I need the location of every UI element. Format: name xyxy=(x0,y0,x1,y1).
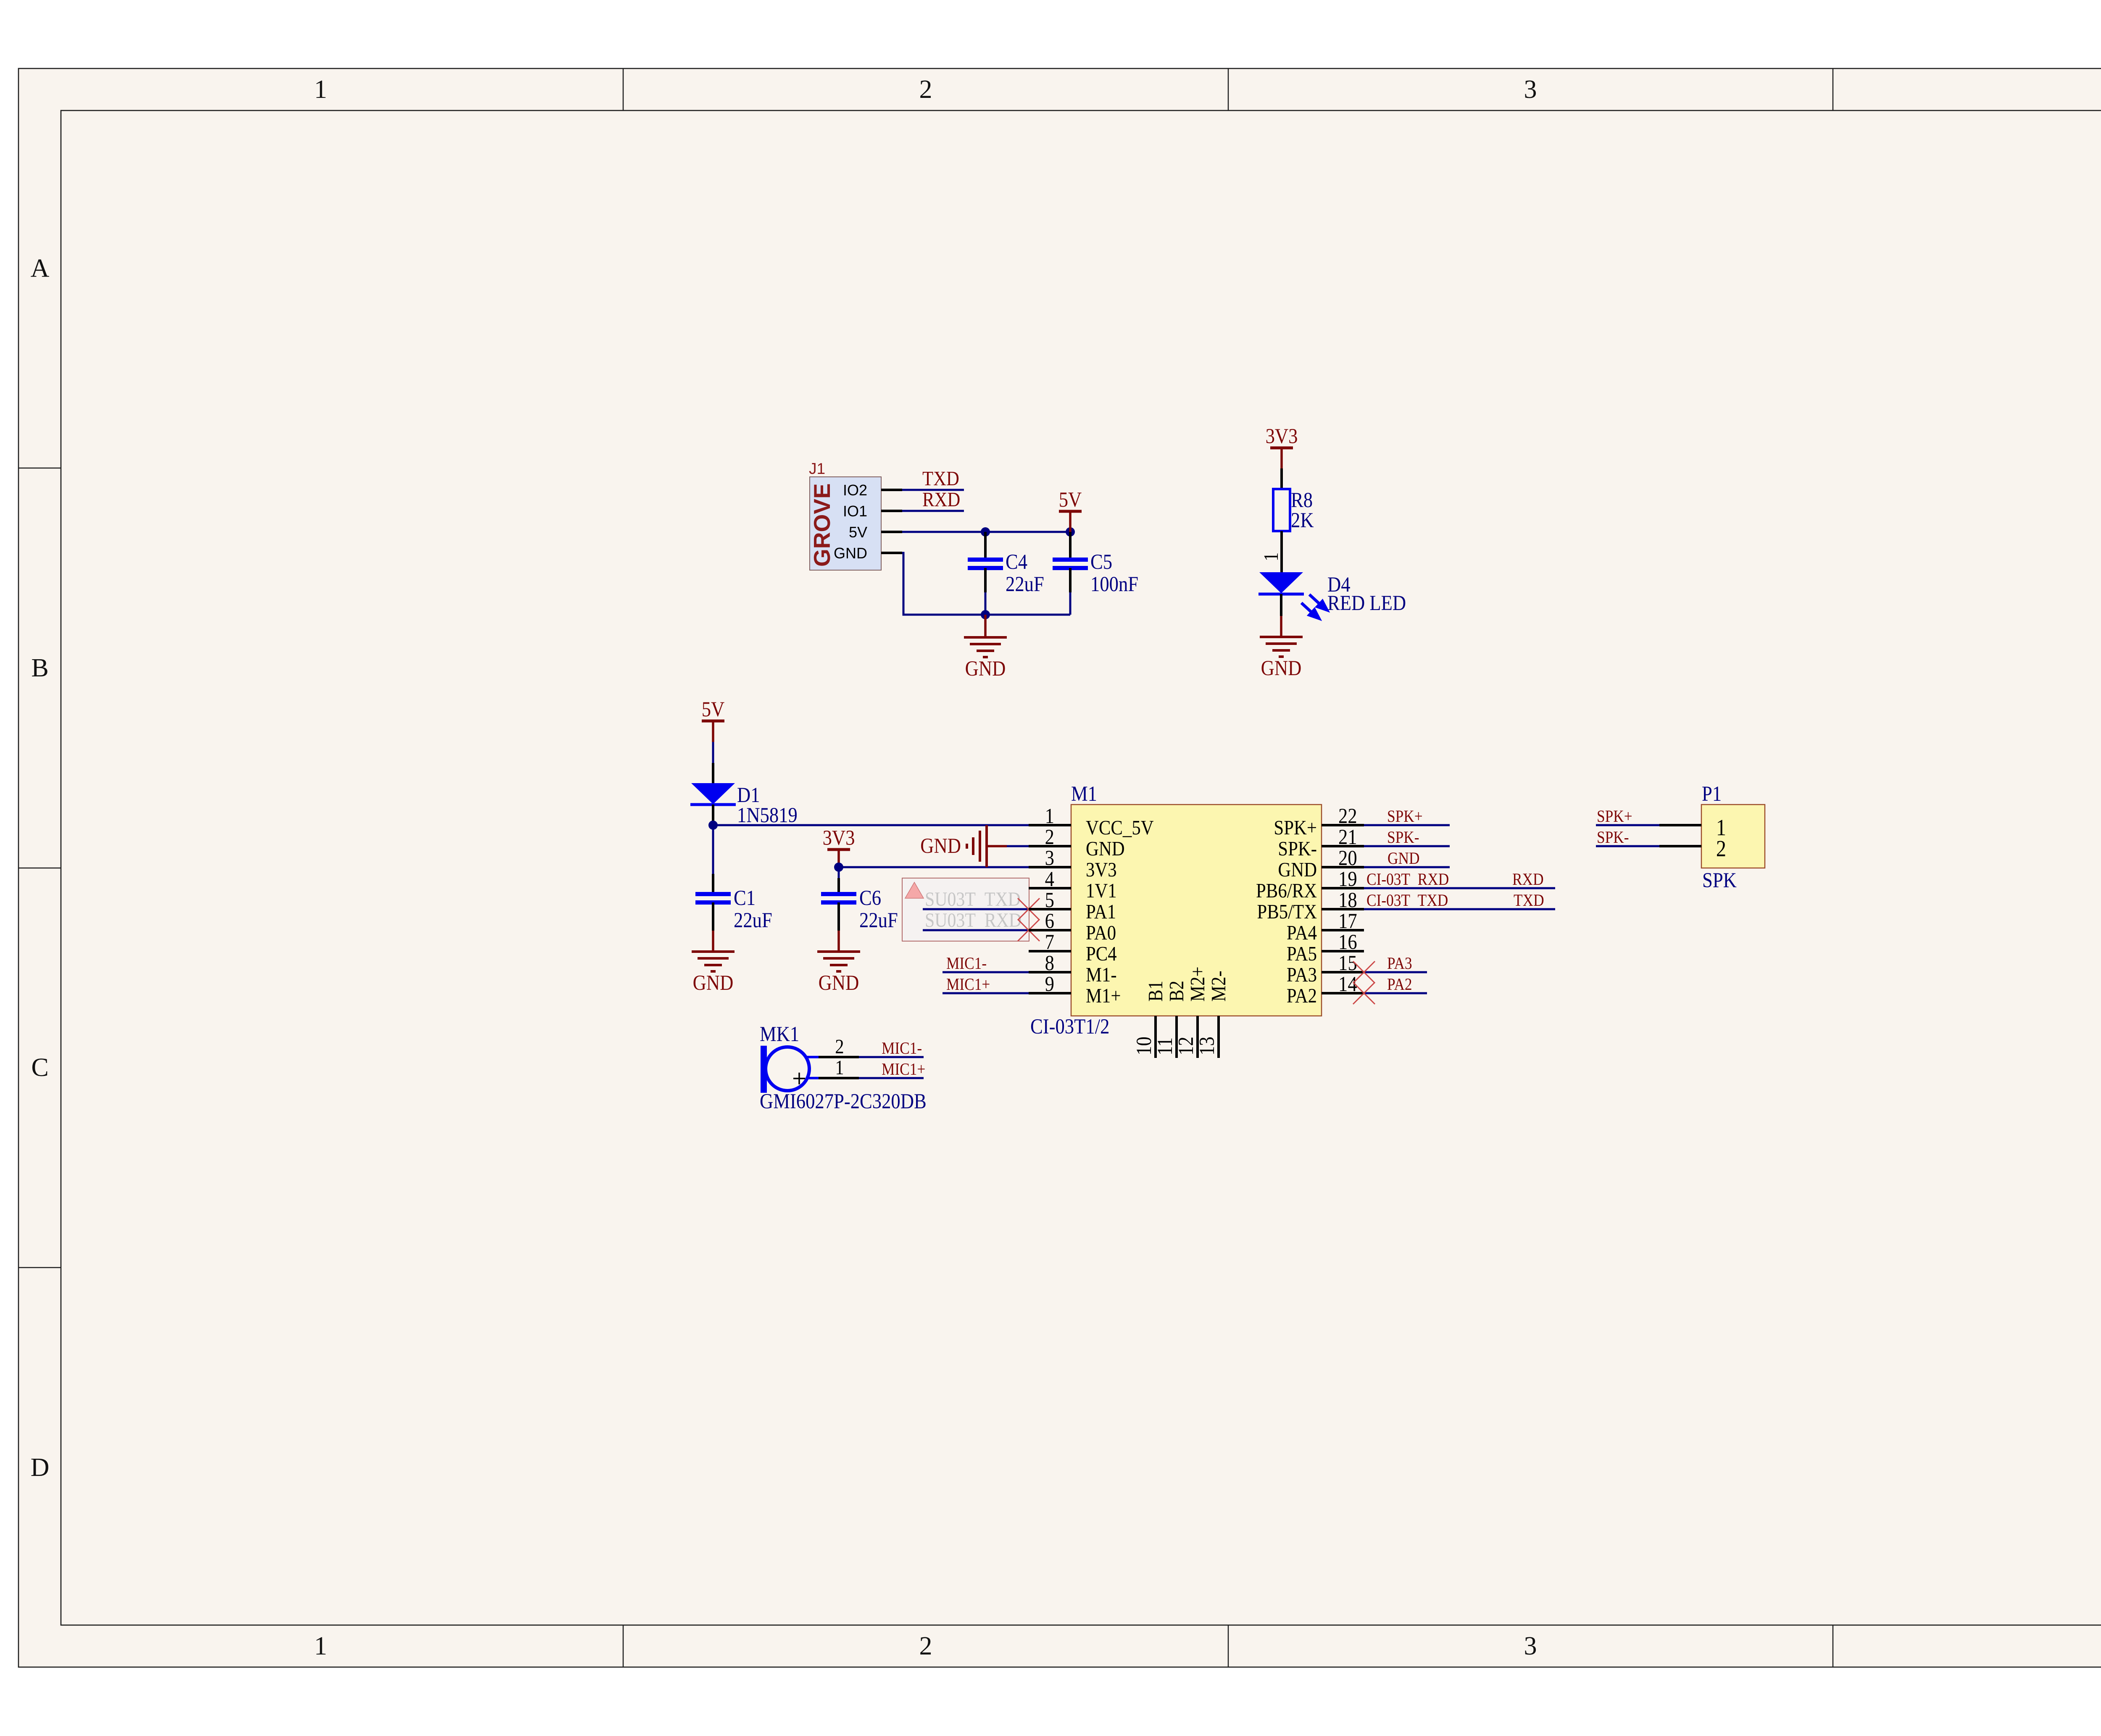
M1 pin 1 VCC_5V xyxy=(1029,805,1154,839)
svg-text:15: 15 xyxy=(1338,952,1357,975)
ground GND (C1) xyxy=(692,931,735,995)
wire SPK- net (M1 pin 21) xyxy=(1364,845,1450,847)
M1 pin 13 M2- xyxy=(1196,971,1230,1058)
svg-text:11: 11 xyxy=(1154,1037,1177,1055)
M1 pin 19 PB6/RX xyxy=(1256,868,1364,902)
capacitor C6 xyxy=(821,894,856,931)
svg-text:20: 20 xyxy=(1338,847,1357,870)
wire R8 to D4 xyxy=(1280,531,1283,572)
svg-text:M1-: M1- xyxy=(1086,963,1117,986)
svg-text:PA0: PA0 xyxy=(1086,921,1116,944)
M1 pin 15 PA3 xyxy=(1287,952,1364,986)
wire SPK- net (P1 pin 2) xyxy=(1596,845,1659,847)
svg-text:CI-03T TXD: CI-03T TXD xyxy=(1366,891,1448,910)
svg-text:J1: J1 xyxy=(809,460,825,477)
svg-text:GND: GND xyxy=(819,972,859,995)
svg-text:2: 2 xyxy=(1716,836,1726,861)
svg-text:16: 16 xyxy=(1338,931,1357,954)
wire MIC1+ net (M1 pin 9) xyxy=(943,992,1029,994)
wire GND net (M1 pin 20) xyxy=(1364,866,1450,868)
P1 pin 2 xyxy=(1659,836,1726,861)
svg-text:12: 12 xyxy=(1175,1036,1198,1055)
M1 pin 5 PA1 xyxy=(1029,889,1116,923)
svg-text:2: 2 xyxy=(919,1632,932,1660)
svg-text:8: 8 xyxy=(1045,952,1054,975)
no-connect X at M1 pin 15 xyxy=(1353,961,1375,983)
svg-text:SPK-: SPK- xyxy=(1278,837,1317,860)
wire SPK+ net (P1 pin 1) xyxy=(1596,824,1659,826)
svg-text:18: 18 xyxy=(1338,889,1357,912)
wire 3V3 net (to M1 pin 3) xyxy=(839,866,1029,868)
svg-text:PB5/TX: PB5/TX xyxy=(1257,900,1317,923)
svg-text:2: 2 xyxy=(919,75,932,104)
svg-text:GND: GND xyxy=(1261,657,1302,680)
svg-text:PA1: PA1 xyxy=(1086,900,1116,923)
svg-text:B2: B2 xyxy=(1165,981,1188,1002)
M1 pin 22 SPK+ xyxy=(1274,805,1364,839)
M1 pin 11 B2 xyxy=(1154,981,1188,1058)
wire MIC1- net (MK1) xyxy=(859,1056,924,1058)
svg-text:GROVE: GROVE xyxy=(809,483,835,567)
resistor R8 xyxy=(1273,489,1290,531)
svg-text:6: 6 xyxy=(1045,910,1054,933)
svg-text:C5: C5 xyxy=(1090,551,1112,574)
M1 pin 9 M1+ xyxy=(1029,973,1121,1007)
svg-text:2K: 2K xyxy=(1291,509,1314,532)
svg-text:SPK+: SPK+ xyxy=(1387,807,1423,826)
ground GND (M1 pin 2) xyxy=(920,825,987,867)
wire GND net (J1 to C4/C5 bottoms) xyxy=(902,553,1070,615)
no-connect X at M1 pin 5 xyxy=(1018,898,1040,920)
wire 5V net (J1 to C4/C5) xyxy=(902,531,1070,533)
svg-text:1V1: 1V1 xyxy=(1086,879,1117,902)
svg-text:PC4: PC4 xyxy=(1086,942,1117,965)
svg-text:P1: P1 xyxy=(1702,783,1722,806)
junction 5V at C4 xyxy=(981,527,990,537)
wire RXD (J1 IO1) xyxy=(902,510,964,512)
svg-text:SPK-: SPK- xyxy=(1387,828,1419,847)
svg-text:MIC1-: MIC1- xyxy=(882,1039,922,1057)
svg-text:VCC_5V: VCC_5V xyxy=(1086,816,1154,839)
M1 pin 14 PA2 xyxy=(1287,973,1364,1007)
svg-text:GND: GND xyxy=(1388,849,1420,868)
svg-text:MIC1-: MIC1- xyxy=(946,954,987,973)
capacitor C5 xyxy=(1053,532,1088,615)
M1 pin 12 M2+ xyxy=(1175,966,1209,1058)
wire GND to M1 pin 2 xyxy=(987,845,1007,847)
svg-text:RXD: RXD xyxy=(1512,870,1544,889)
M1 pin 10 B1 xyxy=(1133,981,1167,1058)
svg-text:RXD: RXD xyxy=(922,488,960,511)
svg-text:M2+: M2+ xyxy=(1186,966,1209,1002)
svg-text:1: 1 xyxy=(835,1056,844,1079)
svg-text:5V: 5V xyxy=(849,523,867,541)
svg-text:MK1: MK1 xyxy=(760,1023,799,1046)
wire CI-03T RXD net (M1 pin 19) xyxy=(1364,887,1555,889)
svg-text:IO2: IO2 xyxy=(843,481,867,499)
svg-text:TXD: TXD xyxy=(1514,891,1544,910)
svg-text:3V3: 3V3 xyxy=(1086,858,1117,881)
capacitor C1 xyxy=(695,894,731,931)
svg-text:PB6/RX: PB6/RX xyxy=(1256,879,1317,902)
svg-text:22uF: 22uF xyxy=(734,909,772,932)
svg-text:100nF: 100nF xyxy=(1090,573,1138,596)
IC M1 body xyxy=(1071,805,1322,1016)
connector J1 (GROVE) xyxy=(809,477,902,570)
svg-text:10: 10 xyxy=(1133,1036,1156,1055)
wire MIC1- net (M1 pin 8) xyxy=(943,971,1029,973)
wire 3V3 to C6 xyxy=(838,867,840,878)
power 3V3 (R8) xyxy=(1266,425,1298,468)
M1 pin 20 GND xyxy=(1278,847,1364,881)
svg-text:C4: C4 xyxy=(1006,551,1027,574)
svg-text:5: 5 xyxy=(1045,889,1054,912)
M1 pin 6 PA0 xyxy=(1029,910,1116,944)
svg-text:5V: 5V xyxy=(702,698,725,721)
wire PA2 net (M1 pin 14) xyxy=(1364,992,1427,994)
svg-text:SU03T RXD: SU03T RXD xyxy=(925,909,1022,931)
no-connect X at M1 pin 14 xyxy=(1353,982,1375,1004)
annotation block SU03T xyxy=(902,878,1029,941)
svg-text:3: 3 xyxy=(1045,847,1054,870)
svg-text:MIC1+: MIC1+ xyxy=(946,975,990,994)
svg-text:SPK+: SPK+ xyxy=(1274,816,1317,839)
svg-text:D: D xyxy=(31,1453,50,1482)
svg-text:C: C xyxy=(31,1053,48,1082)
MK1 pin 1 xyxy=(819,1056,859,1079)
M1 pin 7 PC4 xyxy=(1029,931,1117,965)
svg-text:B1: B1 xyxy=(1144,981,1167,1002)
svg-text:GND: GND xyxy=(1278,858,1317,881)
M1 pin 2 GND xyxy=(1029,826,1125,860)
svg-text:2: 2 xyxy=(1045,826,1054,849)
svg-text:2: 2 xyxy=(835,1035,844,1058)
svg-text:PA4: PA4 xyxy=(1287,921,1317,944)
svg-text:5V: 5V xyxy=(1059,489,1082,512)
svg-text:9: 9 xyxy=(1045,973,1054,996)
svg-text:13: 13 xyxy=(1196,1036,1219,1055)
svg-text:PA5: PA5 xyxy=(1287,942,1317,965)
svg-text:SU03T TXD: SU03T TXD xyxy=(925,888,1021,910)
wire MIC1+ net (MK1) xyxy=(859,1077,924,1079)
svg-text:TXD: TXD xyxy=(922,467,959,490)
svg-text:PA3: PA3 xyxy=(1387,954,1412,973)
junction 3V3 xyxy=(834,863,843,872)
junction 5V at C5 xyxy=(1066,527,1075,537)
svg-text:3V3: 3V3 xyxy=(823,827,855,850)
wire SU03T RXD net (M1 pin 6) xyxy=(923,929,1029,931)
svg-text:GND: GND xyxy=(920,835,961,858)
svg-text:22: 22 xyxy=(1338,805,1357,828)
svg-text:M2-: M2- xyxy=(1207,971,1230,1002)
diode D1 xyxy=(690,783,736,825)
svg-text:1: 1 xyxy=(1045,805,1054,828)
svg-text:C1: C1 xyxy=(734,887,756,910)
svg-text:B: B xyxy=(31,654,48,682)
junction GND at C4 bottom xyxy=(981,610,990,619)
svg-text:19: 19 xyxy=(1338,868,1357,891)
svg-text:1: 1 xyxy=(1260,552,1282,561)
svg-text:21: 21 xyxy=(1338,826,1357,849)
ground GND (C6) xyxy=(817,931,860,995)
P1 pin 1 xyxy=(1659,815,1726,840)
no-connect X at M1 pin 6 xyxy=(1018,919,1040,941)
wire TXD (J1 IO2) xyxy=(902,489,964,491)
svg-text:22uF: 22uF xyxy=(1006,573,1044,596)
M1 pin 3 3V3 xyxy=(1029,847,1117,881)
wire VCC_5V net (D1 to M1 pin 1) xyxy=(713,824,1029,826)
microphone MK1 xyxy=(761,1046,819,1093)
junction D1 output xyxy=(708,821,718,830)
svg-text:MIC1+: MIC1+ xyxy=(882,1060,925,1078)
power 5V (D1) xyxy=(702,698,725,742)
svg-text:A: A xyxy=(31,254,50,283)
M1 pin 21 SPK- xyxy=(1278,826,1364,860)
svg-text:17: 17 xyxy=(1338,910,1357,933)
svg-text:1: 1 xyxy=(314,75,327,104)
M1 pin 16 PA5 xyxy=(1287,931,1364,965)
wire 5V to D1 xyxy=(712,742,714,763)
wire CI-03T TXD net (M1 pin 18) xyxy=(1364,908,1555,910)
MK1 pin 2 xyxy=(819,1035,859,1058)
svg-text:1N5819: 1N5819 xyxy=(737,804,798,827)
svg-text:R8: R8 xyxy=(1291,489,1313,512)
ground GND (C4/C5) xyxy=(964,615,1007,681)
svg-text:3: 3 xyxy=(1524,1632,1537,1660)
svg-text:SPK+: SPK+ xyxy=(1597,807,1632,826)
svg-text:M1+: M1+ xyxy=(1086,984,1121,1007)
svg-text:22uF: 22uF xyxy=(859,909,898,932)
svg-text:3: 3 xyxy=(1524,75,1537,104)
M1 pin 4 1V1 xyxy=(1029,868,1117,902)
wire PA3 net (M1 pin 15) xyxy=(1364,971,1427,973)
svg-text:PA3: PA3 xyxy=(1287,963,1317,986)
M1 pin 8 M1- xyxy=(1029,952,1117,986)
wire SPK+ net (M1 pin 22) xyxy=(1364,824,1450,826)
svg-text:SPK-: SPK- xyxy=(1597,828,1629,847)
capacitor C4 xyxy=(968,532,1003,615)
svg-text:4: 4 xyxy=(1045,868,1055,891)
svg-text:3V3: 3V3 xyxy=(1266,425,1298,448)
wire 3V3 to R8 xyxy=(1280,468,1283,489)
svg-text:D1: D1 xyxy=(737,784,760,807)
svg-text:1: 1 xyxy=(314,1632,327,1660)
svg-text:C6: C6 xyxy=(859,887,881,910)
svg-text:IO1: IO1 xyxy=(843,502,867,520)
power 3V3 (C6) xyxy=(823,827,855,867)
wire SU03T TXD net (M1 pin 5) xyxy=(923,908,1029,910)
svg-text:PA2: PA2 xyxy=(1387,975,1412,994)
connector P1 body xyxy=(1701,805,1765,868)
svg-text:SPK: SPK xyxy=(1702,869,1737,892)
svg-text:M1: M1 xyxy=(1071,783,1097,806)
svg-text:GND: GND xyxy=(693,972,734,995)
LED D4 xyxy=(1258,572,1327,618)
svg-text:GND: GND xyxy=(965,658,1006,681)
svg-text:GMI6027P-2C320DB: GMI6027P-2C320DB xyxy=(760,1090,927,1113)
svg-text:GND: GND xyxy=(834,544,867,562)
ground GND (D4) xyxy=(1260,616,1303,680)
svg-text:GND: GND xyxy=(1086,837,1125,860)
M1 pin 17 PA4 xyxy=(1287,910,1364,944)
svg-text:PA2: PA2 xyxy=(1287,984,1317,1007)
svg-text:7: 7 xyxy=(1045,931,1054,954)
svg-text:RED LED: RED LED xyxy=(1327,592,1406,615)
M1 pin 18 PB5/TX xyxy=(1257,889,1364,923)
svg-text:CI-03T1/2: CI-03T1/2 xyxy=(1030,1015,1109,1039)
wire D1 to C1 xyxy=(712,825,714,874)
svg-text:CI-03T RXD: CI-03T RXD xyxy=(1366,870,1449,889)
power 5V (J1 area) xyxy=(1059,489,1082,532)
